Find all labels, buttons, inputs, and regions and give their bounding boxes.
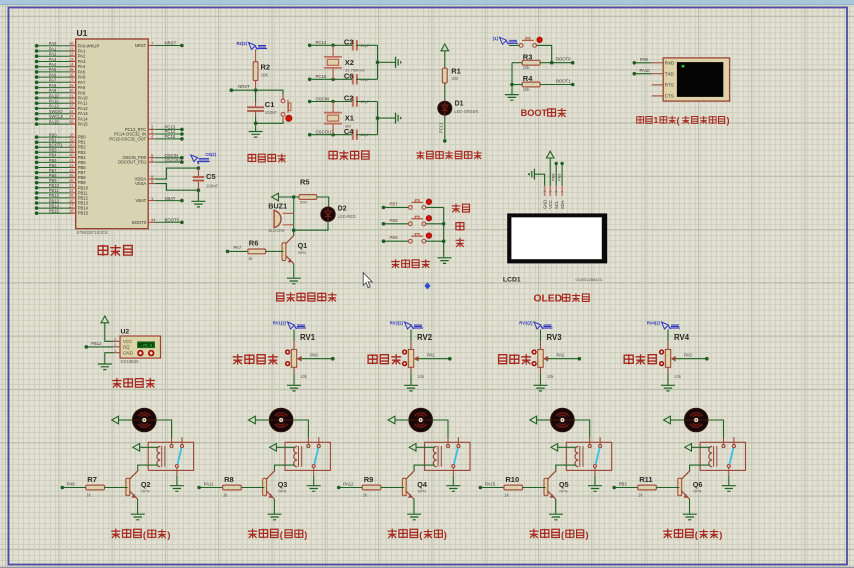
svg-text:GND: GND <box>543 200 548 209</box>
svg-text:PA2: PA2 <box>49 52 57 57</box>
svg-text:OSCOUT_PD1: OSCOUT_PD1 <box>118 160 147 165</box>
svg-text:C1: C1 <box>265 100 275 109</box>
svg-text:): ) <box>586 530 589 540</box>
svg-text:12pF: 12pF <box>360 77 370 82</box>
svg-text:PA2: PA2 <box>557 353 565 358</box>
svg-text:RV1(2): RV1(2) <box>273 321 287 326</box>
svg-text:PB9: PB9 <box>557 174 561 181</box>
svg-text:4: 4 <box>561 191 565 193</box>
svg-text:NPN: NPN <box>278 489 286 494</box>
svg-text:R11: R11 <box>639 475 652 484</box>
svg-text:100nF: 100nF <box>206 184 219 189</box>
svg-text:R10: R10 <box>505 475 519 484</box>
svg-text:RTS: RTS <box>665 83 674 88</box>
svg-text:NPN: NPN <box>418 489 426 494</box>
svg-text:PA11: PA11 <box>204 482 214 487</box>
svg-text:10k: 10k <box>547 374 555 379</box>
svg-text:1: 1 <box>543 191 547 193</box>
svg-text:LED-RED: LED-RED <box>338 214 356 219</box>
svg-text:BUZ1: BUZ1 <box>268 201 287 210</box>
svg-text:PB8: PB8 <box>390 218 399 223</box>
svg-text:R2: R2 <box>261 63 271 72</box>
svg-text:Q2: Q2 <box>141 480 151 489</box>
svg-text:NPN: NPN <box>141 489 149 494</box>
svg-text:C4: C4 <box>344 127 354 136</box>
svg-text:X2: X2 <box>345 58 354 67</box>
svg-text:NRST: NRST <box>238 84 250 89</box>
svg-text:LCD1: LCD1 <box>503 277 521 284</box>
svg-text:PA15: PA15 <box>78 122 89 127</box>
svg-text:PC15: PC15 <box>316 74 327 79</box>
svg-text:R4: R4 <box>523 74 533 83</box>
svg-text:10k: 10k <box>300 374 308 379</box>
svg-text:PB3: PB3 <box>619 482 628 487</box>
svg-text:300: 300 <box>300 200 307 205</box>
svg-text:RV2: RV2 <box>417 333 433 342</box>
svg-text:PC15-OSC32_OUT: PC15-OSC32_OUT <box>109 136 146 141</box>
svg-text:PA7: PA7 <box>49 78 57 83</box>
svg-text:X1: X1 <box>345 114 354 123</box>
svg-text:PA12: PA12 <box>49 104 59 109</box>
svg-text:R2(2): R2(2) <box>237 41 248 46</box>
svg-text:(1): (1) <box>493 36 499 41</box>
svg-text:R8: R8 <box>224 475 234 484</box>
svg-text:U1: U1 <box>77 28 88 38</box>
svg-text:C5(2): C5(2) <box>206 152 217 157</box>
svg-text:NPN: NPN <box>298 250 306 255</box>
svg-text:C6: C6 <box>344 71 354 80</box>
svg-text:Q1: Q1 <box>298 241 308 250</box>
svg-text:SCL: SCL <box>554 200 559 209</box>
svg-text:DQ: DQ <box>123 345 130 350</box>
svg-text:-26.0: -26.0 <box>140 345 153 349</box>
svg-text:RV3: RV3 <box>547 333 563 342</box>
svg-text:BOOT0: BOOT0 <box>132 220 147 225</box>
svg-text:SDA: SDA <box>560 200 565 209</box>
svg-text:1: 1 <box>114 349 116 353</box>
svg-text:PA15: PA15 <box>49 119 59 124</box>
svg-text:OLED128642C: OLED128642C <box>576 277 603 282</box>
svg-text:1: 1 <box>654 115 659 125</box>
svg-text:PA9: PA9 <box>640 57 648 62</box>
svg-text:BOOT0: BOOT0 <box>556 57 571 62</box>
svg-text:PA12: PA12 <box>78 106 89 111</box>
svg-text:2: 2 <box>114 343 116 347</box>
svg-text:D2: D2 <box>338 205 347 212</box>
svg-text:PA7: PA7 <box>234 245 242 250</box>
svg-text:C3: C3 <box>344 37 354 46</box>
svg-text:12pF: 12pF <box>360 99 370 104</box>
svg-text:C2: C2 <box>344 94 354 103</box>
svg-text:R6: R6 <box>249 239 259 248</box>
svg-text:300: 300 <box>451 76 459 81</box>
svg-text:VCC: VCC <box>123 339 132 344</box>
svg-text:NRST: NRST <box>135 43 147 48</box>
svg-text:RV4(2): RV4(2) <box>647 321 661 326</box>
svg-text:10k: 10k <box>674 374 682 379</box>
svg-text:PA10: PA10 <box>640 68 651 73</box>
svg-text:PB8: PB8 <box>551 174 555 181</box>
svg-text:NRST: NRST <box>165 41 177 46</box>
svg-text:PA1: PA1 <box>427 353 435 358</box>
svg-text:PB15: PB15 <box>78 211 89 216</box>
svg-text:STM32F103C8: STM32F103C8 <box>77 230 109 235</box>
svg-text:2: 2 <box>549 191 553 193</box>
svg-text:CTS: CTS <box>665 94 674 99</box>
svg-text:Q3: Q3 <box>278 480 288 489</box>
svg-text:PA3: PA3 <box>684 353 692 358</box>
svg-text:3: 3 <box>114 338 116 342</box>
svg-text:VSSA: VSSA <box>135 181 146 186</box>
svg-text:GND: GND <box>123 350 133 355</box>
svg-text:28: 28 <box>69 209 74 214</box>
svg-text:): ) <box>444 530 447 540</box>
svg-text:12pF: 12pF <box>360 132 370 137</box>
svg-text:VBAT: VBAT <box>136 198 147 203</box>
svg-text:PA7: PA7 <box>78 80 86 85</box>
svg-text:(: ( <box>677 115 680 125</box>
svg-text:PB15: PB15 <box>49 209 60 214</box>
svg-text:PB9: PB9 <box>390 235 399 240</box>
svg-text:NPN: NPN <box>559 489 567 494</box>
svg-text:17: 17 <box>69 78 74 83</box>
svg-text:OSCIN: OSCIN <box>316 96 330 101</box>
svg-text:D1: D1 <box>455 100 464 107</box>
svg-text:OSCOUT: OSCOUT <box>165 157 184 162</box>
svg-text:OSCOUT: OSCOUT <box>316 130 335 135</box>
svg-text:U2: U2 <box>121 329 130 336</box>
svg-text:DS18B20: DS18B20 <box>121 359 140 364</box>
svg-text:BOOT0: BOOT0 <box>165 218 180 223</box>
svg-text:PA0: PA0 <box>310 353 318 358</box>
svg-text:): ) <box>727 115 730 125</box>
svg-text:PA15: PA15 <box>485 482 496 487</box>
svg-text:): ) <box>167 530 170 540</box>
svg-text:Q5: Q5 <box>559 480 569 489</box>
svg-text:RV2(2): RV2(2) <box>390 321 404 326</box>
svg-text:C5: C5 <box>206 172 216 181</box>
svg-text:VBAT: VBAT <box>165 196 176 201</box>
svg-text:OLED: OLED <box>534 294 563 305</box>
svg-text:RV4: RV4 <box>674 333 690 342</box>
svg-text:BOOT1: BOOT1 <box>556 79 571 84</box>
svg-text:): ) <box>719 530 722 540</box>
svg-text:12pF: 12pF <box>360 43 370 48</box>
svg-text:RV3(2): RV3(2) <box>519 321 533 326</box>
svg-text:R5: R5 <box>300 177 310 186</box>
svg-text:R9: R9 <box>364 475 374 484</box>
svg-text:10k: 10k <box>417 374 425 379</box>
svg-text:PC14: PC14 <box>316 40 327 45</box>
svg-text:R7: R7 <box>87 475 97 484</box>
svg-text:10k: 10k <box>261 73 269 78</box>
svg-text:TXD: TXD <box>665 71 675 76</box>
svg-text:Q6: Q6 <box>693 480 703 489</box>
svg-text:PB7: PB7 <box>390 201 399 206</box>
svg-text:RV1: RV1 <box>300 333 316 342</box>
svg-text:33: 33 <box>69 104 74 109</box>
svg-text:LED-GREEN: LED-GREEN <box>454 109 478 114</box>
svg-text:PA12: PA12 <box>343 482 354 487</box>
svg-text:Q4: Q4 <box>417 480 427 489</box>
svg-text:PA2: PA2 <box>78 54 86 59</box>
svg-text:BOOT: BOOT <box>521 108 548 118</box>
svg-text:PB12: PB12 <box>91 341 102 346</box>
svg-text:R3: R3 <box>523 52 533 61</box>
svg-text:10k: 10k <box>523 87 531 92</box>
svg-text:100nF: 100nF <box>265 110 278 115</box>
svg-text:38: 38 <box>69 119 74 124</box>
svg-text:BUZZER: BUZZER <box>269 228 285 233</box>
svg-text:PA8: PA8 <box>67 482 75 487</box>
svg-text:R1: R1 <box>451 67 461 76</box>
svg-text:RXD: RXD <box>665 61 675 66</box>
svg-text:PC15: PC15 <box>165 134 176 139</box>
svg-text:PC13: PC13 <box>439 122 444 133</box>
svg-text:12: 12 <box>69 52 74 57</box>
svg-text:VCC: VCC <box>548 200 553 209</box>
svg-text:10k: 10k <box>523 65 531 70</box>
svg-text:): ) <box>304 530 307 540</box>
svg-text:NPN: NPN <box>693 489 701 494</box>
svg-text:3: 3 <box>555 191 559 193</box>
